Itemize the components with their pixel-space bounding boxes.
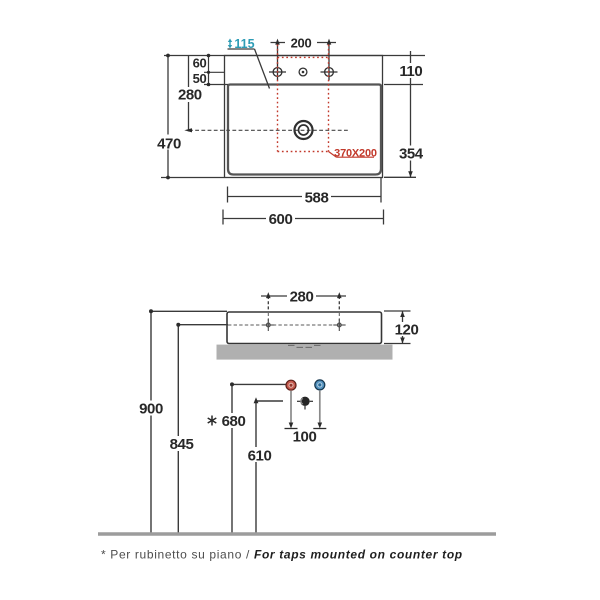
waste outlet (black) bbox=[297, 401, 313, 409]
dashed tap axis line (front) bbox=[228, 313, 346, 325]
label 115 underline and leader diagonal bbox=[228, 49, 270, 89]
svg-text:588: 588 bbox=[305, 189, 329, 206]
dimension 100 arrows bbox=[289, 423, 294, 429]
front tap cross right bbox=[333, 319, 345, 331]
dimension 900 bbox=[151, 311, 227, 534]
dimension 845 bbox=[178, 325, 228, 534]
svg-text:50: 50 bbox=[193, 71, 207, 86]
top edge line extended (top view) bbox=[164, 55, 425, 57]
dimension 588 bbox=[228, 178, 382, 203]
dimension 470 bbox=[167, 56, 169, 178]
dimension 110/354 right side bbox=[384, 51, 423, 177]
dimension 280 vertical (top view) bbox=[188, 56, 190, 132]
floor line bbox=[98, 532, 496, 535]
basin outer rim rect (top view 600x470) bbox=[225, 56, 383, 178]
hot water connection (red) bbox=[286, 380, 296, 390]
svg-text:600: 600 bbox=[269, 211, 293, 228]
svg-text:280: 280 bbox=[178, 87, 202, 104]
tap hole right (top view) bbox=[321, 64, 338, 81]
text background boxes bbox=[138, 37, 424, 463]
asterisk mark for 680 bbox=[208, 416, 217, 426]
svg-text:900: 900 bbox=[139, 400, 163, 417]
basin inner bowl rounded rect (588x354) bbox=[228, 85, 381, 175]
dimension 280 (front taps) bbox=[261, 296, 346, 310]
sink front rect bbox=[227, 312, 382, 344]
tap hole left (top view) bbox=[269, 64, 286, 81]
svg-text:354: 354 bbox=[399, 145, 424, 162]
overflow hole (top view) bbox=[299, 68, 307, 76]
dimension 120 bbox=[384, 311, 411, 344]
dimension 60/50 bbox=[204, 56, 228, 85]
label 370X200 leader bbox=[329, 152, 375, 158]
red tap template dotted rect 370X200 bbox=[278, 45, 329, 152]
drain double circle (top view) bbox=[295, 121, 313, 139]
svg-text:845: 845 bbox=[170, 436, 194, 453]
hidden drain dashes under front sink bbox=[288, 345, 321, 347]
svg-text:470: 470 bbox=[157, 135, 181, 152]
dimension 610 bbox=[256, 401, 283, 534]
svg-text:* Per rubinetto su piano / For: * Per rubinetto su piano / For taps moun… bbox=[101, 548, 463, 562]
dimension 680 bbox=[232, 384, 286, 534]
svg-text:280: 280 bbox=[290, 289, 314, 306]
svg-text:60: 60 bbox=[193, 56, 207, 71]
dimension 200 (top taps) bbox=[271, 43, 337, 65]
counter slab bbox=[217, 345, 393, 360]
gray drop lines from connections bbox=[291, 391, 320, 426]
svg-text:370X200: 370X200 bbox=[334, 148, 377, 160]
svg-text:680: 680 bbox=[222, 413, 246, 430]
svg-text:120: 120 bbox=[395, 321, 419, 338]
cold water connection (blue) bbox=[315, 380, 325, 390]
dimension 600 bbox=[223, 210, 384, 225]
bottom ext line left of rim bbox=[161, 177, 224, 179]
front tap cross left bbox=[262, 319, 274, 331]
svg-text:110: 110 bbox=[399, 63, 422, 80]
label 115 arrow glyph bbox=[228, 39, 232, 49]
drain centerline dashed with arrow bbox=[189, 129, 348, 131]
svg-text:200: 200 bbox=[291, 35, 312, 50]
svg-text:115: 115 bbox=[234, 37, 254, 51]
svg-text:610: 610 bbox=[248, 447, 272, 464]
svg-text:100: 100 bbox=[293, 429, 317, 446]
